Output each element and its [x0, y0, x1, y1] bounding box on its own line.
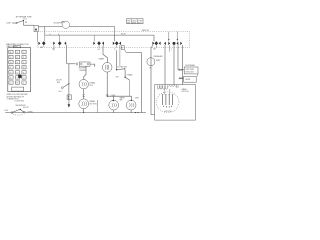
- drop to drain motor M5: [130, 96, 132, 100]
- svg-text:RINSE AID: RINSE AID: [154, 55, 164, 58]
- float switch FS1 lower contact: [124, 70, 129, 80]
- pump motor M3: [79, 99, 89, 109]
- svg-text:DOOR: DOOR: [23, 107, 29, 109]
- thermostat TH1 box: [79, 62, 90, 66]
- contact K6 right arrow: [168, 42, 170, 45]
- stub below K4: [116, 45, 118, 47]
- wire drop c: [173, 45, 175, 85]
- wire M4 to bottom: [113, 110, 115, 113]
- svg-text:VENT: VENT: [185, 79, 191, 81]
- motor coils: [157, 85, 178, 89]
- wire K2c down to junction: [66, 45, 68, 64]
- contact K6b left arrow: [176, 42, 178, 45]
- bottom main wire: [5, 112, 146, 114]
- wire right drops: [164, 45, 166, 85]
- contact K2c left arrow: [64, 42, 66, 45]
- wash motor M2 upper: [79, 80, 88, 89]
- dark cell: [18, 75, 21, 78]
- main wire connector block: [8, 46, 31, 92]
- svg-text:SW: SW: [57, 82, 60, 84]
- drop to wash motor M4: [112, 96, 114, 100]
- connector cells: [9, 50, 26, 84]
- wire K3 to timer motor: [103, 45, 107, 63]
- contact K4 left arrow: [119, 42, 121, 45]
- contact K2 arrow: [53, 42, 55, 45]
- svg-text:N-W: N-W: [5, 110, 9, 112]
- contact K4 diamond: [115, 41, 119, 45]
- label THERMAL FUSE text top-left: [6, 15, 33, 24]
- short drop with label: [169, 45, 171, 52]
- svg-text:FLOAT SW: FLOAT SW: [117, 65, 126, 68]
- contact K2 diamond: [58, 41, 62, 45]
- wire thermostat right end tick: [90, 64, 95, 67]
- contact K5 diamond: [155, 41, 159, 45]
- main wire connector label: [6, 43, 29, 48]
- dots above right contacts: [168, 39, 169, 40]
- label thermostat: [79, 68, 87, 72]
- contact K6 circle: [173, 42, 176, 45]
- bottom door switch labels: [15, 101, 34, 114]
- timer T1 outline: [45, 26, 115, 35]
- junction dots bottom wire: [135, 112, 136, 113]
- wire J1 to timer: [38, 26, 45, 28]
- connector mark: [83, 95, 85, 97]
- svg-text:F: F: [23, 57, 24, 59]
- label main motor: [182, 88, 190, 93]
- svg-text:P: P: [17, 72, 18, 74]
- svg-text:L1-BK: L1-BK: [6, 22, 12, 24]
- drain motor M5: [126, 100, 136, 110]
- wire small box to right drop: [126, 53, 141, 113]
- svg-text:TIMER: TIMER: [98, 59, 104, 61]
- contact K5 left arrow: [159, 42, 161, 45]
- bottom door switch S3: [11, 109, 25, 115]
- stub below K3: [98, 45, 100, 47]
- svg-text:MOTOR: MOTOR: [90, 104, 98, 106]
- wire to relay box2: [179, 77, 184, 79]
- terminal block TB1: [67, 95, 71, 100]
- svg-text:E: E: [17, 57, 18, 59]
- small box right of K4: [121, 46, 124, 50]
- svg-text:MOTOR: MOTOR: [165, 111, 173, 113]
- svg-text:W: W: [52, 48, 54, 50]
- contact K3 diamond: [97, 41, 101, 45]
- console dashed box: [38, 32, 190, 48]
- svg-text:MODULE: MODULE: [186, 72, 195, 74]
- wire junction right to thermostat: [67, 63, 76, 65]
- contact K3 arrow: [93, 42, 95, 45]
- timer motor M1: [102, 63, 112, 73]
- wire drop e: [181, 45, 183, 85]
- motor winding bars: [162, 89, 174, 108]
- console right group stubs: [169, 32, 178, 42]
- svg-text:SWITCH: SWITCH: [142, 30, 150, 32]
- part number box: [127, 19, 143, 25]
- label door switch mid: [56, 80, 62, 84]
- wire K5 to heater relay: [151, 45, 155, 115]
- svg-text:DRAIN: DRAIN: [127, 73, 133, 76]
- wire drop d: [177, 45, 179, 70]
- wire M2 to M3: [83, 89, 85, 99]
- connector ticks mid: [106, 94, 108, 95]
- wire junction right: [107, 95, 131, 97]
- wire S2 down: [68, 84, 70, 95]
- stub dash top to K3: [93, 35, 95, 41]
- wire thermostat to drain sol M2: [84, 66, 86, 79]
- connector ticks: [76, 63, 77, 66]
- contact K6b right arrow: [180, 42, 182, 45]
- heater relay HR1: [147, 58, 155, 69]
- wire K4 to float switch: [116, 50, 118, 69]
- label HR1: [154, 55, 164, 62]
- svg-text:THERM: THERM: [79, 70, 86, 72]
- motor dashed ellipse: [156, 92, 179, 113]
- svg-text:MOTOR: MOTOR: [182, 91, 190, 93]
- svg-text:DET/RINSE: DET/RINSE: [185, 65, 196, 67]
- wire K4b down: [119, 45, 121, 66]
- stub timer to K2b: [59, 35, 61, 48]
- main motor box: [155, 85, 196, 121]
- timer right edge drop to K4: [114, 35, 116, 41]
- contacts box2: [179, 77, 181, 79]
- connector label below: [7, 94, 28, 100]
- svg-text:S: S: [10, 77, 11, 79]
- wire drop to K5: [153, 35, 155, 41]
- label M3: [90, 100, 98, 105]
- svg-text:L: L: [17, 67, 18, 69]
- contact K3 left arrow: [102, 42, 104, 45]
- wire to connector: [24, 24, 35, 26]
- relay box RB2: [184, 76, 197, 82]
- door switch S1 top-left: [12, 20, 24, 25]
- stub below K1: [44, 35, 45, 47]
- wire RB1 to RB2: [196, 74, 198, 76]
- svg-text:N.O.: N.O.: [59, 91, 63, 93]
- contact K1 diamond: [42, 41, 46, 45]
- wire drop to door sw lower: [68, 64, 70, 83]
- wire M3 to bottom wire: [83, 109, 85, 113]
- contact K5 arrow: [152, 42, 154, 45]
- svg-text:DW: DW: [127, 22, 130, 24]
- contacts box1: [179, 69, 181, 71]
- contact K4 arrow: [113, 42, 115, 45]
- wire M5 to bottom: [130, 110, 132, 113]
- contact K1 arrow: [38, 42, 40, 45]
- connector J1 small box: [34, 26, 38, 32]
- door switch S2: [61, 83, 69, 89]
- thermal protector TP1 on timer: [61, 21, 69, 28]
- svg-text:DISP: DISP: [156, 60, 161, 62]
- wire M1 down: [106, 72, 108, 96]
- wire FS1 down to junction wire: [128, 80, 130, 96]
- svg-text:BK-16: BK-16: [121, 33, 126, 35]
- wire below K2 arrow: [53, 45, 55, 51]
- contact K6 left arrow: [164, 42, 166, 45]
- wire TB1 down: [68, 100, 70, 105]
- svg-text:B: B: [17, 52, 18, 54]
- node stub to contact K1: [36, 32, 38, 42]
- stub below K5 diamond: [155, 45, 157, 47]
- label M2: [89, 82, 95, 87]
- wash motor M4: [109, 100, 119, 110]
- relay box RB1: [184, 67, 198, 74]
- wire timer to selector drop: [114, 34, 154, 36]
- svg-text:HI-LIMIT: HI-LIMIT: [54, 22, 62, 24]
- svg-text:T: T: [17, 77, 18, 79]
- wire stub left of wash motor: [96, 100, 98, 113]
- arrow end: [68, 104, 71, 107]
- wire small box to node: [124, 49, 126, 52]
- label between motors: [120, 97, 126, 102]
- float switch FS1 upper contact: [116, 68, 126, 70]
- junction dot: [107, 96, 108, 97]
- wide cell bottom: [12, 87, 24, 91]
- svg-text:DOOR SW: DOOR SW: [15, 101, 24, 103]
- wire to relay box1: [178, 69, 184, 71]
